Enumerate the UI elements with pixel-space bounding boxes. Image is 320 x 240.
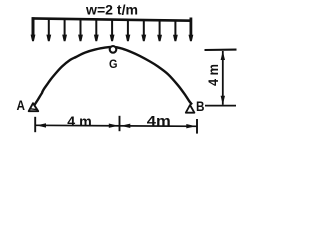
load arrow 1 — [31, 20, 36, 41]
load arrow 9 — [157, 20, 162, 41]
arch rib — [35, 47, 193, 105]
load arrow 4 — [78, 19, 83, 41]
bottom dim left arrowhead — [36, 123, 46, 127]
svg-text:B: B — [196, 98, 205, 114]
bottom dim mid-left arrowhead — [109, 124, 119, 128]
right dim bottom tick / connector from B — [205, 105, 236, 107]
svg-text:A: A — [17, 97, 26, 113]
bottom dim right arrowhead — [186, 124, 196, 128]
crown hinge circle — [110, 46, 117, 53]
right dim top tick — [205, 49, 237, 52]
svg-text:4 m: 4 m — [205, 64, 221, 86]
svg-text:4m: 4m — [147, 113, 171, 129]
load arrow 2 — [46, 19, 51, 41]
bottom dim right tick — [196, 119, 198, 134]
bottom dim mid-right arrowhead — [121, 124, 131, 128]
bottom dim left tick — [34, 117, 36, 132]
bottom dimension line — [35, 125, 197, 126]
right dim bottom arrowhead — [221, 96, 225, 105]
load arrow 10 — [173, 21, 178, 42]
load arrow 6 — [110, 20, 115, 41]
support A pin triangle — [29, 103, 39, 111]
load arrow 5 — [94, 20, 99, 42]
svg-text:G: G — [109, 57, 118, 71]
right dim vertical line — [222, 51, 224, 105]
load arrow 3 — [62, 19, 67, 41]
load arrow 8 — [141, 20, 146, 41]
bottom dim middle tick — [119, 116, 121, 131]
load arrow 7 — [126, 20, 131, 41]
support B pin triangle — [186, 105, 195, 113]
load bar right end cap — [189, 18, 192, 38]
distributed load top bar — [32, 18, 192, 20]
svg-text:4 m: 4 m — [67, 113, 92, 129]
svg-text:w=2 t/m: w=2 t/m — [85, 2, 138, 18]
load bar left end cap — [32, 17, 35, 36]
right dim top arrowhead — [221, 51, 225, 60]
load arrow 11 — [189, 35, 194, 42]
